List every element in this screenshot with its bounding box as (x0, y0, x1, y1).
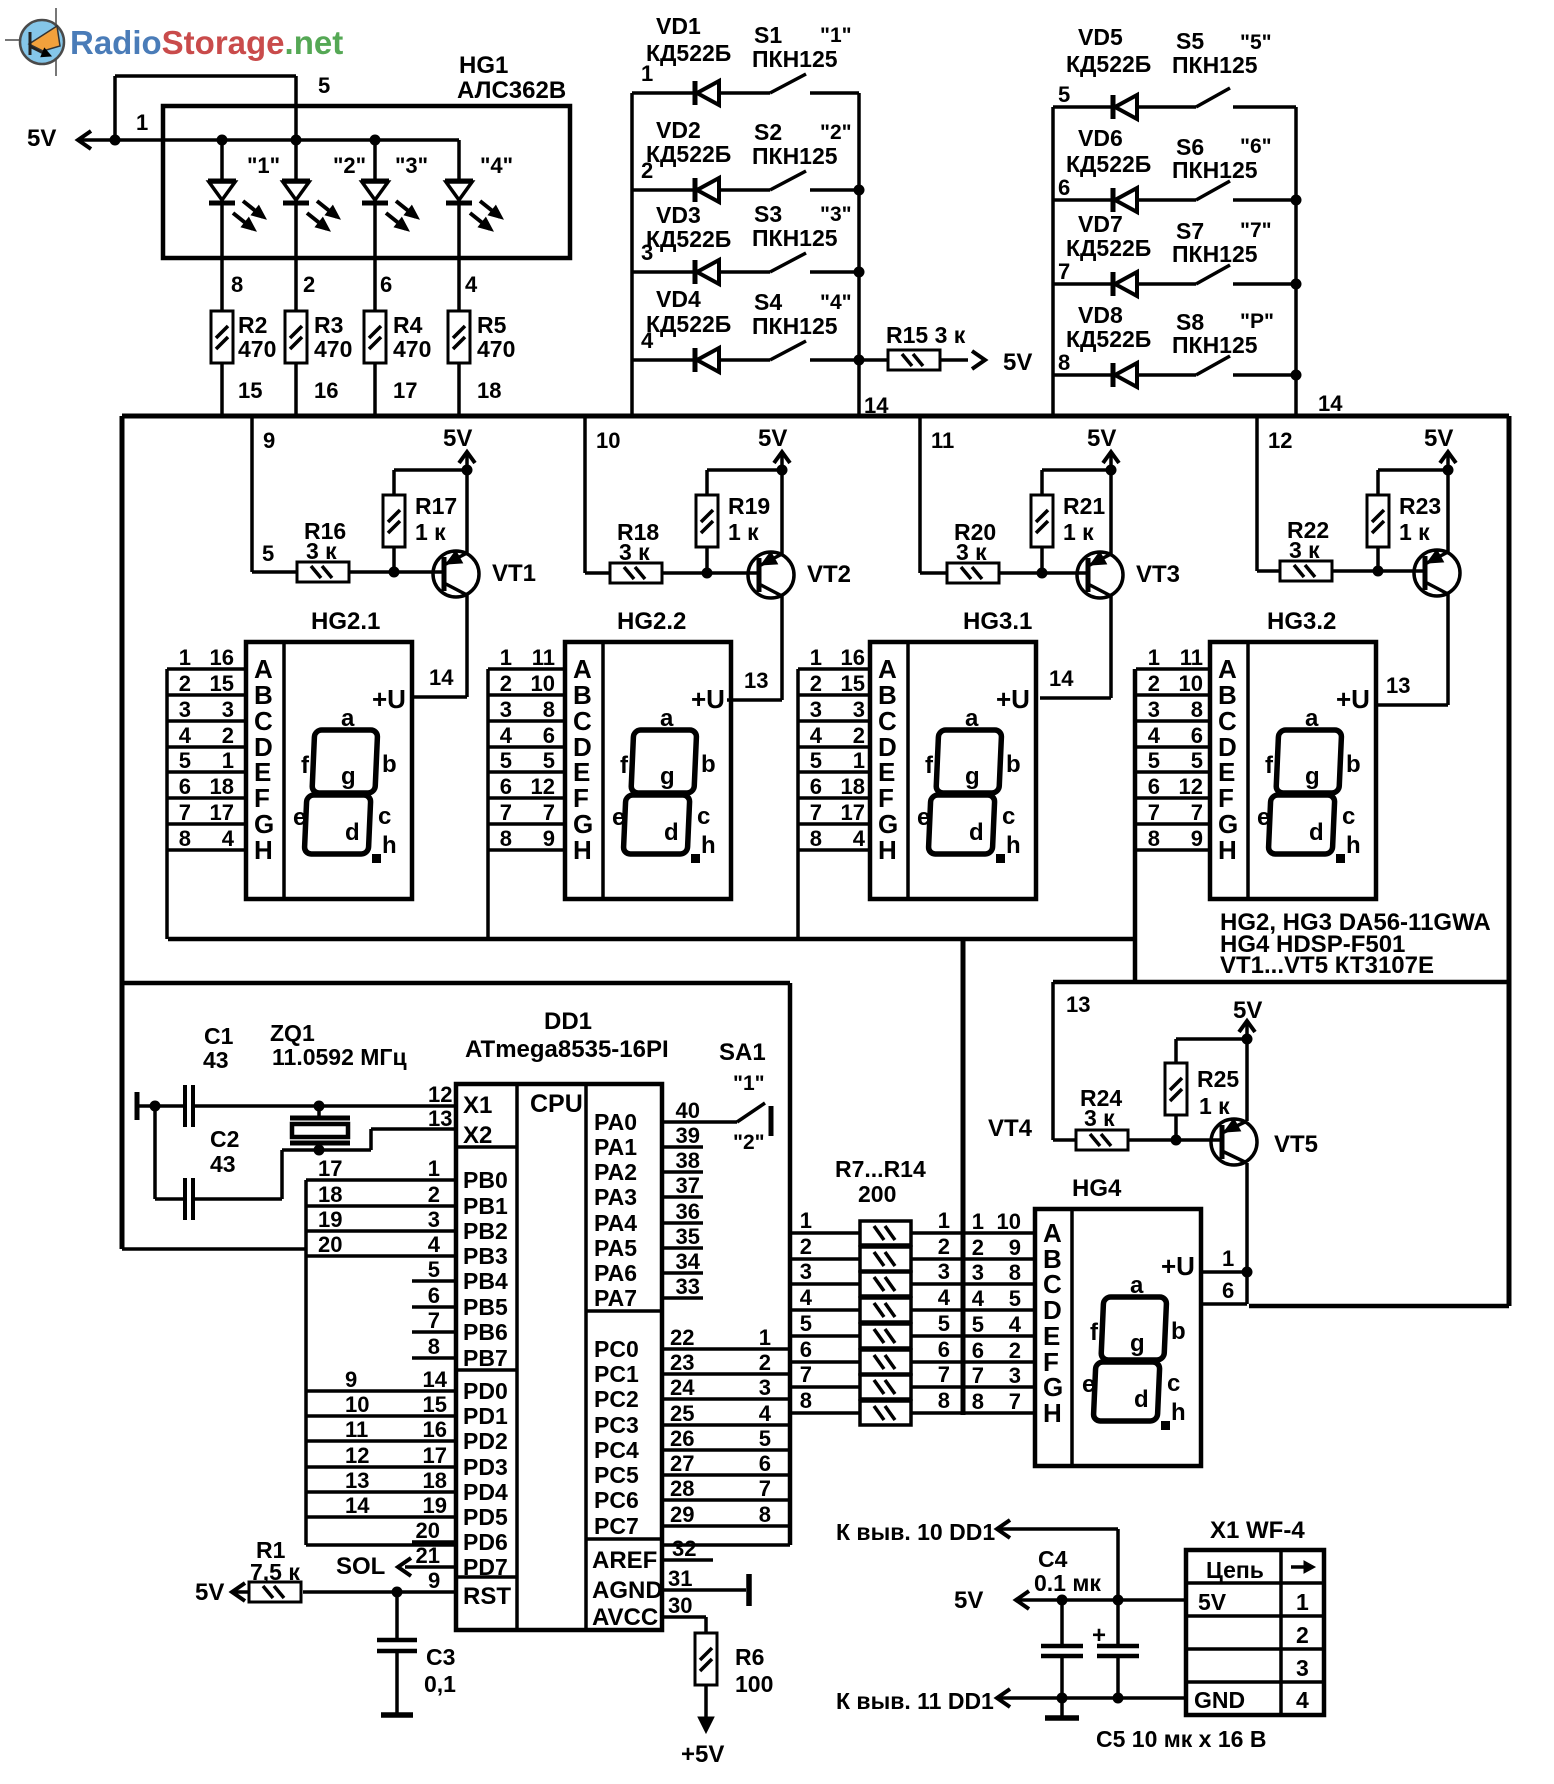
wire input rail VD5-VD8 (pins 5-8) (1053, 82, 1070, 416)
switch S7 "7" ПКН125 (1172, 218, 1296, 284)
wire 5V to connector X1 (1019, 1595, 1186, 1606)
svg-text:КД522Б: КД522Б (1066, 151, 1151, 177)
svg-text:8: 8 (543, 697, 555, 722)
switch S8 "Р" ПКН125 (1172, 309, 1296, 375)
svg-text:5: 5 (500, 748, 512, 773)
svg-text:27: 27 (670, 1451, 694, 1476)
transistor VT4 КТ3107Е (1375, 470, 1460, 705)
svg-text:2: 2 (759, 1350, 771, 1375)
svg-text:5: 5 (759, 1426, 771, 1451)
svg-text:3: 3 (1296, 1655, 1309, 1681)
node 5V (R15 output) (972, 349, 1032, 376)
svg-text:C3: C3 (426, 1644, 455, 1670)
diode VD2 КД522Б (632, 117, 770, 202)
svg-text:VT1: VT1 (492, 560, 536, 587)
svg-text:6: 6 (543, 723, 555, 748)
svg-text:R15 3 к: R15 3 к (886, 322, 966, 348)
svg-text:7: 7 (938, 1362, 950, 1387)
diode VD7 КД522Б (1053, 211, 1196, 296)
resistor R12 200 (790, 1337, 963, 1374)
svg-text:PB5: PB5 (463, 1294, 508, 1320)
svg-text:R23: R23 (1399, 493, 1441, 519)
svg-text:4: 4 (938, 1285, 951, 1310)
svg-text:8: 8 (1148, 826, 1160, 851)
svg-text:5: 5 (318, 73, 330, 98)
svg-text:4: 4 (972, 1286, 985, 1311)
svg-text:"2": "2" (733, 1131, 765, 1154)
svg-text:К выв. 11 DD1: К выв. 11 DD1 (836, 1688, 994, 1714)
svg-text:PA7: PA7 (594, 1285, 637, 1311)
svg-text:5: 5 (972, 1312, 984, 1337)
module box MCU (DD1 section) (124, 983, 790, 1545)
svg-text:9: 9 (263, 428, 275, 453)
svg-text:g: g (965, 763, 980, 790)
svg-text:+U: +U (372, 684, 406, 714)
svg-text:6: 6 (1191, 723, 1203, 748)
svg-text:H: H (1218, 835, 1237, 865)
svg-text:PB2: PB2 (463, 1218, 508, 1244)
svg-text:18: 18 (210, 774, 234, 799)
svg-text:VD1: VD1 (656, 13, 701, 39)
svg-text:g: g (1305, 763, 1320, 790)
svg-text:КД522Б: КД522Б (1066, 326, 1151, 352)
svg-text:1 к: 1 к (1399, 519, 1430, 545)
svg-text:R21: R21 (1063, 493, 1105, 519)
diode VD8 КД522Б (1053, 302, 1196, 387)
wire section pin 10 to base resistor (585, 416, 620, 573)
svg-text:КД522Б: КД522Б (1066, 51, 1151, 77)
svg-text:36: 36 (676, 1199, 700, 1224)
svg-text:S1: S1 (754, 22, 782, 48)
svg-text:HG3.2: HG3.2 (1267, 608, 1336, 635)
svg-text:e: e (917, 804, 930, 831)
svg-text:+U: +U (1336, 684, 1370, 714)
svg-text:9: 9 (543, 826, 555, 851)
svg-text:2: 2 (222, 723, 234, 748)
pin AGND 31 / ground (592, 1566, 749, 1606)
svg-text:VD6: VD6 (1078, 125, 1123, 151)
svg-text:PB6: PB6 (463, 1319, 508, 1345)
svg-text:8: 8 (972, 1389, 984, 1414)
resistor R25 1 к (1165, 1039, 1247, 1140)
svg-text:PC1: PC1 (594, 1361, 639, 1387)
svg-text:RadioStorage.net: RadioStorage.net (70, 24, 343, 61)
svg-text:100: 100 (735, 1671, 773, 1697)
svg-text:d: d (969, 819, 984, 846)
svg-text:5V: 5V (27, 125, 56, 152)
resistor R6 100 (695, 1633, 773, 1717)
svg-text:14: 14 (423, 1367, 448, 1392)
svg-text:4: 4 (810, 723, 823, 748)
svg-text:2: 2 (428, 1182, 440, 1207)
svg-text:2: 2 (972, 1235, 984, 1260)
diode VD3 КД522Б (632, 202, 770, 284)
svg-text:ПКН125: ПКН125 (1172, 241, 1258, 267)
svg-text:7: 7 (1191, 800, 1203, 825)
svg-text:33: 33 (676, 1274, 700, 1299)
svg-text:h: h (382, 832, 397, 859)
display HG2.1 DA56-11GWA (167, 608, 412, 939)
svg-text:13: 13 (1066, 992, 1090, 1017)
svg-text:5: 5 (1191, 748, 1203, 773)
node +U pin 14 (1049, 666, 1074, 691)
transistor VT3 КТ3107Е (1040, 470, 1180, 698)
pin AVCC 30 (592, 1593, 706, 1633)
DD1 port B pins PB0-PB7 (pin table 17-20) (306, 1156, 508, 1545)
svg-text:КД522Б: КД522Б (1066, 235, 1151, 261)
svg-text:1: 1 (1296, 1589, 1309, 1615)
svg-text:R19: R19 (728, 493, 770, 519)
svg-text:2: 2 (938, 1234, 950, 1259)
svg-text:PD3: PD3 (463, 1454, 508, 1480)
DD1 port C pins PC0-PC7 (pin table 22-29) (594, 1325, 790, 1545)
svg-text:7: 7 (810, 800, 822, 825)
svg-text:9: 9 (345, 1367, 357, 1392)
wire 5V rail HG1 / pins 1 and 5 (81, 73, 459, 146)
svg-text:1: 1 (810, 645, 822, 670)
svg-text:R25: R25 (1197, 1066, 1239, 1092)
svg-text:"3": "3" (820, 203, 852, 226)
svg-text:КД522Б: КД522Б (646, 226, 731, 252)
svg-text:f: f (1265, 752, 1274, 779)
logo radiostorage.net (5, 8, 343, 76)
svg-text:7: 7 (972, 1363, 984, 1388)
svg-text:+U: +U (1161, 1251, 1195, 1281)
svg-text:h: h (701, 832, 716, 859)
svg-text:f: f (1090, 1319, 1099, 1346)
svg-text:2: 2 (500, 671, 512, 696)
svg-text:ZQ1: ZQ1 (270, 1020, 315, 1046)
svg-text:8: 8 (428, 1334, 440, 1359)
svg-text:4: 4 (1296, 1687, 1309, 1713)
resistor R13 200 (790, 1362, 963, 1399)
svg-text:HG2.1: HG2.1 (311, 608, 380, 635)
svg-text:32: 32 (672, 1536, 696, 1561)
svg-text:16: 16 (423, 1417, 447, 1442)
svg-text:"1": "1" (820, 24, 852, 47)
svg-text:"6": "6" (1240, 135, 1272, 158)
svg-text:5: 5 (810, 748, 822, 773)
svg-text:43: 43 (210, 1151, 236, 1177)
resistor R22 3 к (1280, 517, 1425, 581)
svg-text:PB1: PB1 (463, 1193, 508, 1219)
svg-text:RST: RST (463, 1583, 511, 1610)
svg-text:6: 6 (938, 1337, 950, 1362)
svg-text:AREF: AREF (592, 1547, 657, 1574)
svg-text:1: 1 (938, 1208, 950, 1233)
svg-text:H: H (878, 835, 897, 865)
svg-text:PB0: PB0 (463, 1167, 508, 1193)
capacitor C4 0.1 мк (1034, 1546, 1101, 1704)
resistor R16 3 к (297, 518, 444, 582)
svg-text:VD8: VD8 (1078, 302, 1123, 328)
svg-text:"2": "2" (333, 153, 366, 178)
svg-text:a: a (660, 705, 674, 732)
LED "4" of HG1 (445, 140, 513, 311)
svg-text:PA1: PA1 (594, 1134, 637, 1160)
wire segment bus to HG4 (963, 939, 1033, 1415)
svg-text:PA2: PA2 (594, 1159, 637, 1185)
switch S6 "6" ПКН125 (1172, 134, 1296, 200)
svg-text:VT2: VT2 (807, 561, 851, 588)
svg-text:16: 16 (314, 378, 338, 403)
svg-text:Цепь: Цепь (1206, 1557, 1264, 1583)
node 5V (VT5) (1233, 997, 1262, 1045)
svg-text:АЛС362В: АЛС362В (457, 77, 566, 104)
svg-text:3: 3 (500, 697, 512, 722)
svg-text:c: c (697, 803, 710, 830)
svg-text:39: 39 (676, 1123, 700, 1148)
svg-text:20: 20 (416, 1518, 440, 1543)
svg-text:5V: 5V (1424, 425, 1453, 452)
svg-text:1 к: 1 к (728, 519, 759, 545)
capacitor C5 10 мк x 16 В (electrolytic) (1092, 1600, 1266, 1752)
svg-text:4: 4 (800, 1285, 813, 1310)
svg-text:22: 22 (670, 1325, 694, 1350)
svg-text:PC7: PC7 (594, 1513, 639, 1539)
svg-text:PB4: PB4 (463, 1268, 508, 1294)
svg-text:14: 14 (1318, 391, 1343, 416)
svg-text:11: 11 (532, 645, 555, 670)
svg-text:AVCC: AVCC (592, 1604, 658, 1631)
display HG3.1 DA56-11GWA (798, 608, 1036, 939)
svg-text:e: e (1257, 804, 1270, 831)
svg-text:X2: X2 (463, 1122, 492, 1149)
svg-text:34: 34 (676, 1249, 701, 1274)
svg-text:1 к: 1 к (415, 519, 446, 545)
svg-text:3: 3 (179, 697, 191, 722)
svg-text:5V: 5V (195, 1579, 224, 1606)
resistor R4 470 (364, 311, 431, 416)
svg-text:S4: S4 (754, 289, 782, 315)
svg-text:15: 15 (238, 378, 262, 403)
svg-text:d: d (345, 819, 360, 846)
svg-text:8: 8 (1058, 350, 1070, 375)
resistor R1 7,5 к (234, 1537, 397, 1602)
svg-text:5V: 5V (1003, 349, 1032, 376)
svg-text:1: 1 (500, 645, 512, 670)
ground (C3) (381, 1712, 413, 1718)
svg-text:g: g (341, 763, 356, 790)
svg-text:X1: X1 (463, 1092, 492, 1119)
svg-text:R2: R2 (238, 312, 267, 338)
svg-text:"5": "5" (1240, 31, 1272, 54)
svg-text:h: h (1006, 832, 1021, 859)
svg-text:10: 10 (531, 671, 555, 696)
diode VD1 КД522Б (632, 13, 770, 105)
svg-text:1: 1 (179, 645, 191, 670)
svg-text:3: 3 (853, 697, 865, 722)
svg-text:"3": "3" (395, 153, 428, 178)
svg-text:6: 6 (179, 774, 191, 799)
svg-text:a: a (965, 705, 979, 732)
svg-text:8: 8 (231, 272, 243, 297)
svg-text:g: g (660, 763, 675, 790)
svg-text:6: 6 (759, 1451, 771, 1476)
node +U pin 13 (744, 668, 768, 693)
svg-text:1: 1 (136, 110, 148, 135)
pin AREF 32 (592, 1536, 713, 1574)
svg-text:4: 4 (500, 723, 513, 748)
svg-text:1: 1 (853, 748, 865, 773)
svg-text:H: H (1043, 1398, 1062, 1428)
svg-text:17: 17 (393, 378, 417, 403)
svg-text:13: 13 (1386, 673, 1410, 698)
svg-text:4: 4 (179, 723, 192, 748)
connector X1 WF-4 (1186, 1517, 1324, 1715)
svg-text:R5: R5 (477, 312, 507, 338)
svg-text:e: e (293, 804, 306, 831)
display HG4 HDSP-F501 (963, 1175, 1201, 1466)
svg-text:К выв. 10 DD1: К выв. 10 DD1 (836, 1519, 995, 1545)
svg-text:"1": "1" (733, 1072, 765, 1095)
svg-text:31: 31 (668, 1566, 692, 1591)
diode VD6 КД522Б (1053, 125, 1196, 212)
capacitor C2 43 (155, 1106, 456, 1220)
svg-text:2: 2 (303, 272, 315, 297)
svg-text:23: 23 (670, 1350, 694, 1375)
svg-text:6: 6 (810, 774, 822, 799)
svg-text:3: 3 (428, 1207, 440, 1232)
svg-text:2: 2 (853, 723, 865, 748)
svg-text:24: 24 (670, 1375, 695, 1400)
node +5V (R6) (681, 1717, 724, 1768)
svg-text:HG4: HG4 (1072, 1175, 1122, 1202)
svg-text:8: 8 (1191, 697, 1203, 722)
resistor R20 3 к (947, 519, 1088, 583)
svg-text:HG1: HG1 (459, 52, 508, 79)
svg-text:18: 18 (318, 1182, 342, 1207)
svg-text:3 к: 3 к (956, 539, 987, 565)
svg-text:19: 19 (423, 1493, 447, 1518)
svg-text:11: 11 (931, 428, 954, 453)
resistor R11 200 (790, 1311, 963, 1348)
svg-text:19: 19 (318, 1207, 342, 1232)
wire section pin 9 to base resistor (252, 416, 297, 572)
svg-text:b: b (701, 751, 716, 778)
svg-text:VT5: VT5 (1274, 1131, 1318, 1158)
svg-text:PB7: PB7 (463, 1345, 508, 1371)
svg-text:6: 6 (428, 1283, 440, 1308)
resistor R18 3 к (610, 519, 759, 583)
wire section pin 11 to base resistor (920, 416, 954, 573)
svg-text:C4: C4 (1038, 1546, 1068, 1572)
svg-text:PC4: PC4 (594, 1437, 639, 1463)
svg-text:ПКН125: ПКН125 (752, 46, 838, 72)
svg-text:20: 20 (318, 1232, 342, 1257)
svg-text:7: 7 (1058, 259, 1070, 284)
svg-text:GND: GND (1194, 1687, 1245, 1713)
capacitor C1 43 (137, 1023, 456, 1127)
svg-text:4: 4 (1148, 723, 1161, 748)
svg-text:ПКН125: ПКН125 (752, 313, 838, 339)
switch S1 "1" ПКН125 (752, 22, 859, 93)
display HG3.2 DA56-11GWA (1136, 608, 1376, 899)
svg-text:30: 30 (668, 1593, 692, 1618)
svg-text:0.1 мк: 0.1 мк (1034, 1570, 1101, 1596)
svg-text:КД522Б: КД522Б (646, 40, 731, 66)
svg-text:b: b (1346, 751, 1361, 778)
svg-text:3 к: 3 к (306, 538, 337, 564)
svg-text:5: 5 (262, 541, 274, 566)
svg-text:10: 10 (997, 1209, 1021, 1234)
svg-text:8: 8 (800, 1388, 812, 1413)
wire section pin 12 to base resistor (1257, 416, 1292, 571)
svg-text:17: 17 (210, 800, 234, 825)
svg-text:PA0: PA0 (594, 1109, 637, 1135)
svg-text:PA4: PA4 (594, 1210, 637, 1236)
svg-text:e: e (612, 804, 625, 831)
switch S3 "3" ПКН125 (752, 201, 859, 272)
svg-text:КД522Б: КД522Б (646, 141, 731, 167)
svg-text:5: 5 (1058, 82, 1070, 107)
transistor VT5 КТ3107Е (1211, 1039, 1318, 1272)
svg-text:VD4: VD4 (656, 286, 701, 312)
svg-text:R4: R4 (393, 312, 423, 338)
svg-text:3: 3 (972, 1260, 984, 1285)
display HG2.2 DA56-11GWA (488, 608, 731, 939)
svg-text:5: 5 (428, 1257, 440, 1282)
svg-text:VT3: VT3 (1136, 561, 1180, 588)
svg-text:ATmega8535-16PI: ATmega8535-16PI (465, 1036, 669, 1063)
svg-text:3: 3 (800, 1259, 812, 1284)
svg-text:6: 6 (380, 272, 392, 297)
svg-text:C2: C2 (210, 1126, 239, 1152)
svg-text:КД522Б: КД522Б (646, 311, 731, 337)
svg-text:PC6: PC6 (594, 1487, 639, 1513)
svg-text:3 к: 3 к (1289, 537, 1320, 563)
resistor R2 470 (211, 311, 276, 416)
svg-text:12: 12 (428, 1082, 452, 1107)
resistor R19 1 к (696, 470, 782, 573)
svg-text:2: 2 (1296, 1622, 1309, 1648)
DD1 port D pins PD0-PD7 (pin table 9-14) (306, 1367, 508, 1580)
switch S4 "4" ПКН125 (752, 289, 859, 360)
svg-text:14: 14 (1049, 666, 1074, 691)
node +U pin 13 (1386, 673, 1410, 698)
svg-text:3: 3 (810, 697, 822, 722)
svg-text:4: 4 (853, 826, 866, 851)
node HG4 +U pins 1 and 6 (1201, 1246, 1253, 1304)
svg-text:4: 4 (428, 1232, 441, 1257)
svg-text:VT1...VT5 КТ3107Е: VT1...VT5 КТ3107Е (1220, 952, 1434, 979)
svg-text:8: 8 (179, 826, 191, 851)
resistor R23 1 к (1367, 470, 1448, 571)
svg-text:2: 2 (1148, 671, 1160, 696)
svg-text:h: h (1171, 1399, 1186, 1426)
svg-text:17: 17 (318, 1156, 342, 1181)
svg-text:PA6: PA6 (594, 1260, 637, 1286)
svg-text:1: 1 (428, 1156, 440, 1181)
svg-text:a: a (341, 705, 355, 732)
svg-text:9: 9 (1191, 826, 1203, 851)
svg-text:4: 4 (222, 826, 235, 851)
svg-text:S3: S3 (754, 201, 782, 227)
svg-text:a: a (1305, 705, 1319, 732)
svg-text:5V: 5V (954, 1587, 983, 1614)
LED "1" of HG1 (208, 140, 280, 311)
svg-text:c: c (1002, 803, 1015, 830)
svg-text:5: 5 (1009, 1286, 1021, 1311)
svg-text:PD1: PD1 (463, 1403, 508, 1429)
svg-text:H: H (254, 835, 273, 865)
capacitor C3 0,1 (377, 1592, 456, 1713)
svg-text:21: 21 (416, 1543, 440, 1568)
svg-text:1 к: 1 к (1199, 1093, 1230, 1119)
svg-text:"7": "7" (1240, 219, 1272, 242)
svg-text:b: b (382, 751, 397, 778)
svg-text:10: 10 (1179, 671, 1203, 696)
